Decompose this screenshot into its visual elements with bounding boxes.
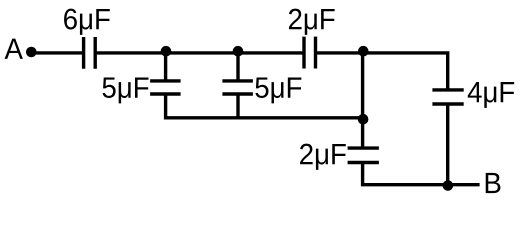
wire 2uF-top to right corner and down to C4uF [316,53,448,90]
wire C1 to top-right corner (through nodes) [95,51,304,54]
capacitor 2uF top plates [304,37,316,69]
capacitor 5uF #2 plates [222,81,253,94]
wire node1 down to 5uF#1 [164,53,167,81]
label node B [486,173,501,193]
wire bottom rail from 2uF-bottom to B [363,163,480,185]
label 6uF [64,9,110,35]
capacitor 2uF bottom plates [348,148,379,162]
wire A to C1 [31,51,82,54]
label 2uF bottom [300,144,346,170]
junction node middle rail [358,114,369,125]
junction node 1 [161,46,172,57]
wire 5uF#2 lower lead [236,94,239,118]
wire node3 down through middle node to 2uF-bottom [361,53,364,148]
junction node bottom rail [443,180,454,191]
terminal dot A [26,47,37,58]
capacitor 6uF plates [84,37,96,69]
label node A [5,39,23,59]
junction node 2 [233,46,244,57]
label 4uF [468,82,514,108]
wire 5uF#1 lower lead + middle rail [166,94,363,118]
label 2uF top [289,9,335,35]
label 5uF #2 [255,77,301,103]
capacitor 4uF plates [432,90,463,104]
label 5uF #1 [103,77,149,103]
wire node2 down to 5uF#2 [236,53,239,81]
wire 4uF lower lead down to bottom wire [446,104,449,185]
junction node 3 [358,46,369,57]
capacitor 5uF #1 plates [150,81,181,94]
